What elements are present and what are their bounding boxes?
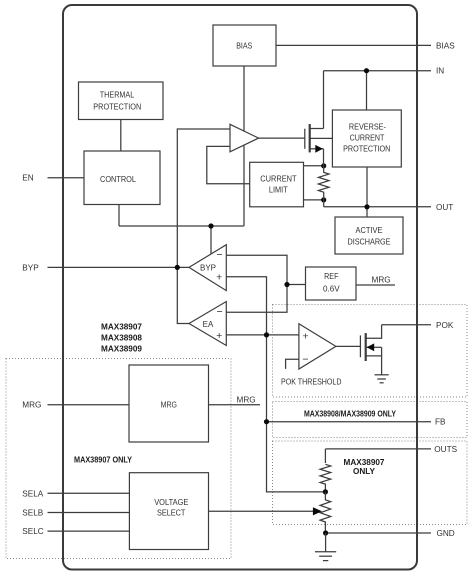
svg-text:MAX38909: MAX38909 <box>101 344 142 353</box>
svg-text:+: + <box>303 330 309 342</box>
svg-text:0.6V: 0.6V <box>323 285 340 294</box>
wire REF output MRG net <box>356 284 395 286</box>
wiper arrow <box>313 507 322 515</box>
transistor POK FET body stub <box>367 346 382 348</box>
svg-text:EA: EA <box>203 320 214 329</box>
svg-text:ACTIVE: ACTIVE <box>356 226 383 235</box>
junction divider tap <box>323 489 328 494</box>
svg-text:BIAS: BIAS <box>236 42 252 51</box>
junction current limit lower <box>321 197 326 202</box>
wire current limit lower tap <box>304 199 324 201</box>
svg-text:BIAS: BIAS <box>436 41 455 50</box>
svg-text:MAX38908: MAX38908 <box>101 334 142 343</box>
block REVERSE-CURRENT PROTECTION <box>332 110 401 167</box>
svg-text:MRG: MRG <box>237 396 256 405</box>
svg-text:OUTS: OUTS <box>434 445 457 454</box>
block VOLTAGE SELECT <box>129 473 208 550</box>
pin OUT wire <box>324 206 431 208</box>
wire POK comparator - stub <box>286 359 299 369</box>
wire OUTS drop to divider <box>324 449 326 463</box>
svg-text:MAX38907: MAX38907 <box>101 323 142 332</box>
svg-text:FB: FB <box>435 418 446 427</box>
wire MRG box output <box>209 404 261 406</box>
svg-text:−: − <box>302 353 308 365</box>
block BIAS <box>213 25 276 66</box>
block MRG <box>129 365 209 442</box>
wire bias rail horizontal <box>119 225 244 227</box>
pin MRG wire <box>48 404 130 406</box>
block CURRENT LIMIT <box>250 162 304 207</box>
wire sense node to OUT <box>323 200 325 207</box>
transistor pass FET source arrow <box>315 145 323 153</box>
pin IN wire <box>324 70 432 72</box>
transistor POK FET channel bar <box>365 333 367 361</box>
svg-text:THERMAL: THERMAL <box>100 91 135 100</box>
wire EA+ / POK comparator + <box>226 334 299 336</box>
junction reference rail / REF <box>284 282 289 287</box>
transistor POK FET body arrow <box>367 343 375 351</box>
pin GND wire <box>326 532 431 534</box>
svg-text:SELA: SELA <box>22 489 43 498</box>
pin SELA wire <box>48 492 130 494</box>
transistor POK FET gate bar <box>359 335 361 357</box>
wire current limit upper tap <box>304 165 324 167</box>
svg-text:VOLTAGE: VOLTAGE <box>154 498 189 507</box>
transistor pass FET drain stub <box>310 128 324 130</box>
svg-text:PROTECTION: PROTECTION <box>343 145 390 154</box>
svg-text:IN: IN <box>436 67 444 76</box>
pin POK wire <box>382 324 431 326</box>
svg-text:BYP: BYP <box>22 263 39 272</box>
svg-text:POK: POK <box>436 321 454 330</box>
block CONTROL <box>84 151 160 205</box>
svg-text:SELC: SELC <box>22 527 43 536</box>
junction current limit upper <box>321 163 326 168</box>
option region MAX38907 ONLY (left, MRG + VOLTAGE SELECT) <box>6 359 231 559</box>
svg-text:MAX38907 ONLY: MAX38907 ONLY <box>74 456 132 465</box>
block ACTIVE DISCHARGE <box>335 217 403 254</box>
transistor pass FET channel bar <box>309 124 311 152</box>
op-amp buffer stage <box>230 124 259 152</box>
pin SELB wire <box>48 512 130 514</box>
wire BIAS box to rail <box>243 66 245 226</box>
svg-text:OUT: OUT <box>436 203 453 212</box>
svg-text:CONTROL: CONTROL <box>100 175 136 184</box>
ground (POK FET) <box>375 375 389 383</box>
pin EN wire <box>48 177 85 179</box>
wire THERMAL PROTECTION to CONTROL <box>120 120 122 152</box>
wire IN drop to pass FET drain <box>323 71 325 129</box>
wire pass FET source to sense resistor <box>323 149 325 166</box>
svg-text:+: + <box>216 272 222 284</box>
svg-text:MRG: MRG <box>22 401 41 410</box>
svg-text:CURRENT: CURRENT <box>260 174 296 183</box>
junction GND node <box>323 530 328 535</box>
wire GND node to ground <box>325 533 327 552</box>
svg-text:POK THRESHOLD: POK THRESHOLD <box>281 378 342 387</box>
transistor pass FET body stub to RCP <box>310 137 333 139</box>
option region MAX38907 ONLY (OUTS divider) <box>273 441 468 525</box>
op-amp BYP (points left) <box>189 245 226 291</box>
resistor divider lower (adjustable) <box>320 492 331 533</box>
pin OUTS wire <box>325 448 431 450</box>
op-amp EA (points left) <box>189 302 226 346</box>
junction OUT / RCP / ACTIVE DISCHARGE <box>364 204 369 209</box>
wire amp output to buffer input <box>177 129 230 324</box>
block THERMAL PROTECTION <box>79 82 164 120</box>
svg-text:MAX38907: MAX38907 <box>344 458 385 467</box>
option region MAX38908/MAX38909 POK THRESHOLD <box>273 305 468 398</box>
transistor pass FET source stub <box>310 148 324 150</box>
svg-text:MRG: MRG <box>372 276 391 285</box>
pin BIAS wire <box>276 44 431 46</box>
junction IN / RCP <box>364 68 369 73</box>
junction bias rail / BYP amp branch <box>208 223 213 228</box>
wire CONTROL bottom drop <box>118 205 120 227</box>
svg-text:+: + <box>216 330 222 342</box>
resistor divider upper <box>320 464 331 492</box>
svg-text:SELECT: SELECT <box>157 508 185 517</box>
transistor POK FET source stub <box>366 355 382 357</box>
wire rail branch to BYP amp <box>210 226 212 255</box>
wire POK FET source to ground <box>381 347 383 375</box>
ground (GND pin) <box>315 552 336 561</box>
svg-text:ONLY: ONLY <box>353 467 376 476</box>
wire REF to reference rail <box>287 284 306 286</box>
svg-text:PROTECTION: PROTECTION <box>93 103 141 112</box>
svg-text:DISCHARGE: DISCHARGE <box>348 238 391 247</box>
pin FB wire <box>267 421 432 423</box>
wire BYP+ to feedback rail <box>226 277 325 492</box>
resistor current sense <box>318 166 329 200</box>
junction feedback / EA+ <box>264 332 269 337</box>
wire IN to reverse-current protection <box>366 71 368 110</box>
chip outline <box>63 5 417 570</box>
svg-text:CURRENT: CURRENT <box>350 134 385 143</box>
svg-text:SELB: SELB <box>22 509 43 518</box>
svg-text:REF: REF <box>324 272 338 281</box>
svg-text:LIMIT: LIMIT <box>269 185 288 194</box>
wire VOLTAGE SELECT to divider wiper <box>209 510 314 512</box>
svg-text:REVERSE-: REVERSE- <box>349 123 386 132</box>
wire buffer output to pass FET gate <box>259 137 305 139</box>
svg-text:GND: GND <box>437 529 455 538</box>
transistor pass FET gate bar <box>304 129 306 149</box>
svg-text:BYP: BYP <box>200 264 216 273</box>
block REF 0.6V <box>306 267 357 300</box>
wire POK comparator output to POK FET gate <box>336 345 361 347</box>
svg-text:−: − <box>217 249 223 261</box>
wire current-limit loop to buffer lower input <box>207 146 250 183</box>
svg-text:−: − <box>217 306 223 318</box>
svg-text:MAX38908/MAX38909 ONLY: MAX38908/MAX38909 ONLY <box>304 410 396 419</box>
junction BYP pin / BYP amp output <box>175 265 180 270</box>
svg-text:MRG: MRG <box>161 400 177 409</box>
wire BYP- to reference rail <box>226 255 287 312</box>
pin BYP wire <box>48 266 190 268</box>
option region MAX38908/MAX38909 ONLY (FB) <box>273 402 468 438</box>
svg-text:EN: EN <box>22 174 33 183</box>
pin SELC wire <box>48 530 130 532</box>
wire RCP bottom to OUT and ACTIVE DISCHARGE <box>366 167 368 217</box>
op-amp POK comparator <box>299 324 336 369</box>
transistor POK FET drain stub to POK <box>366 325 382 338</box>
junction feedback / FB <box>264 419 269 424</box>
